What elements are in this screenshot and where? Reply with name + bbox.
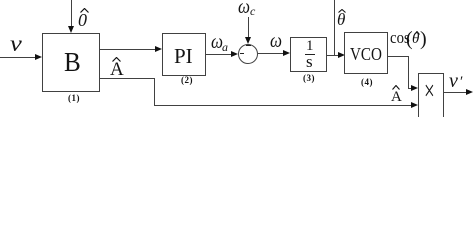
arrowhead into B left <box>35 54 42 60</box>
block PI <box>162 33 206 76</box>
node v' output label <box>449 71 458 91</box>
block 1/s integrator <box>290 37 327 72</box>
label (2) <box>181 76 193 85</box>
node omega_c label <box>238 0 250 17</box>
arrowhead into PI <box>155 46 162 52</box>
node o-hat label <box>78 11 87 29</box>
multiplier box <box>418 73 444 119</box>
label (4) <box>361 78 373 87</box>
arrowhead into summer top <box>245 37 251 44</box>
label (1) <box>68 94 80 103</box>
wire PI to summer <box>206 54 232 55</box>
arrowhead cos into multiplier <box>411 85 418 91</box>
wire VCO output into multiplier <box>408 88 413 89</box>
block VCO label <box>350 45 382 63</box>
wire integrator to VCO <box>327 55 339 56</box>
block PI label <box>174 46 193 67</box>
wire A-hat vertical down <box>154 78 155 105</box>
integrator fraction bar <box>305 54 315 55</box>
arrowhead A-hat into multiplier <box>411 102 418 108</box>
label (3) <box>303 74 315 83</box>
arrowhead into summer left <box>231 51 238 57</box>
integrator denominator s <box>306 53 313 70</box>
wire VCO output down <box>408 56 409 89</box>
wire output v' <box>444 92 467 93</box>
node v input label <box>10 32 22 55</box>
wire A-hat bottom run <box>154 105 412 106</box>
block B <box>42 33 100 92</box>
arrowhead into VCO <box>338 52 345 58</box>
block VCO <box>344 32 388 74</box>
node theta-hat label <box>337 11 345 28</box>
integrator numerator 1 <box>306 39 314 54</box>
node A-hat label (left) <box>110 60 124 79</box>
node omega_a label <box>211 32 223 52</box>
block B label <box>64 49 81 76</box>
arrowhead into integrator <box>283 50 290 56</box>
node A-hat label (right) <box>391 90 402 105</box>
multiplier x symbol <box>424 78 435 106</box>
wire B to PI <box>100 49 156 50</box>
node cos(theta-hat) label <box>390 29 410 46</box>
arrowhead output <box>466 89 473 95</box>
wire v input <box>0 57 37 58</box>
minus sign top input <box>246 45 251 46</box>
wire o-hat input from top <box>71 0 72 27</box>
wire A-hat horizontal from B <box>100 78 155 79</box>
arrowhead into B top <box>68 26 74 33</box>
minus sign left input <box>240 53 244 54</box>
wire VCO output <box>388 56 409 57</box>
node omega label <box>270 31 282 51</box>
wire omega_c down <box>248 17 249 38</box>
summing junction circle <box>238 44 258 64</box>
wire theta-hat tap up <box>334 0 335 56</box>
wire summer to integrator <box>258 53 284 54</box>
